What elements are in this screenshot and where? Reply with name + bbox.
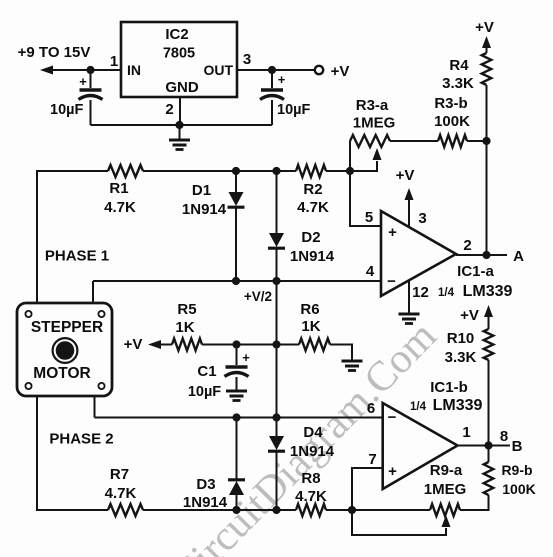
IC1-a label [457, 263, 494, 280]
capacitor input 10uF [79, 70, 103, 125]
junction R3a node [346, 167, 354, 175]
svg-text:+: + [388, 463, 397, 480]
svg-text:B: B [512, 438, 523, 455]
svg-text:2: 2 [463, 237, 471, 254]
svg-text:4.7K: 4.7K [104, 199, 136, 216]
junction D4 bottom [272, 506, 280, 514]
svg-text:2: 2 [165, 101, 173, 118]
svg-text:1N914: 1N914 [290, 443, 335, 460]
C1 value 10uF [188, 384, 221, 400]
node +V/2 label [244, 289, 272, 304]
resistor R1 [108, 165, 143, 177]
svg-text:8: 8 [500, 428, 508, 445]
motor screw bottom-left [25, 383, 31, 389]
diode D2 1N914 [268, 171, 285, 281]
wire pin7 branch [352, 468, 383, 510]
motor shaft [53, 338, 78, 363]
IC1-a minus input sign [387, 273, 396, 290]
IC2 pin OUT label [203, 62, 233, 78]
R7 value [105, 485, 137, 502]
regulator IC2 7805 box [121, 22, 237, 97]
svg-text:R10: R10 [447, 330, 475, 347]
wire R10 to output B [488, 360, 490, 446]
R10 label [447, 330, 475, 347]
svg-text:3: 3 [243, 51, 251, 68]
IC1-b label [430, 379, 468, 396]
svg-text:+: + [242, 350, 250, 365]
resistor R3-b [438, 135, 467, 147]
wire mid to R6 [277, 344, 300, 346]
svg-text:1: 1 [462, 424, 470, 441]
wire pin6 row [95, 417, 383, 419]
junction C1 top [232, 340, 240, 348]
svg-text:1K: 1K [301, 318, 320, 335]
node +V label [331, 63, 350, 80]
R1 label [109, 180, 128, 197]
node +V for R5 [124, 336, 143, 353]
svg-text:+: + [388, 224, 397, 241]
wire R3b to node [467, 140, 487, 142]
wire R3a to R3b [390, 140, 438, 142]
R3-b value [434, 113, 470, 130]
svg-text:A: A [513, 248, 524, 265]
svg-text:IN: IN [127, 62, 141, 78]
junction D2 bottom [272, 277, 280, 285]
D3 value 1N914 [183, 494, 228, 511]
R2 value [297, 199, 329, 216]
resistor R6 [299, 339, 330, 351]
supply input arrow [40, 66, 53, 75]
svg-text:3.3K: 3.3K [442, 75, 474, 92]
svg-text:R1: R1 [109, 180, 128, 197]
IC1-b fraction 1/4 [410, 401, 427, 413]
svg-text:+: + [278, 72, 286, 87]
svg-text:C1: C1 [197, 363, 216, 380]
IC1-a fraction 1/4 [438, 287, 455, 299]
wire IC2 OUT [237, 69, 315, 71]
C1 label [197, 363, 216, 380]
wire R1 to R2 [143, 170, 296, 172]
svg-text:PHASE 2: PHASE 2 [49, 431, 113, 448]
junction D2 top [272, 167, 280, 175]
motor screw bottom-right [98, 383, 104, 389]
svg-text:R7: R7 [110, 466, 129, 483]
wire R6 to ground [330, 345, 352, 362]
motor screw top-right [98, 311, 104, 317]
svg-text:+: + [79, 74, 87, 89]
svg-text:R9-b: R9-b [501, 462, 532, 478]
watermark CircuitDiagram.Com [163, 313, 445, 557]
svg-text:1MEG: 1MEG [353, 115, 396, 132]
resistor R2 [296, 165, 326, 177]
motor label STEPPER [31, 319, 103, 336]
resistor R10 [484, 329, 494, 360]
svg-text:+V: +V [331, 63, 350, 80]
junction output cap [268, 66, 276, 74]
svg-text:4.7K: 4.7K [297, 199, 329, 216]
node PHASE 2 label [49, 431, 113, 448]
resistor R5 [172, 339, 202, 351]
pin 1 label [462, 424, 470, 441]
svg-text:STEPPER: STEPPER [31, 319, 103, 336]
svg-text:1/4: 1/4 [438, 287, 455, 299]
svg-text:4: 4 [366, 263, 375, 280]
svg-text:R2: R2 [303, 181, 322, 198]
svg-text:MOTOR: MOTOR [33, 365, 90, 382]
R6 value [301, 318, 320, 335]
svg-text:+V: +V [396, 167, 415, 184]
D2 label [301, 229, 320, 246]
wire R2 to node [326, 170, 350, 172]
input cap value 10uF [50, 102, 83, 118]
R9-a value [424, 481, 467, 498]
wire IC2 GND pin [179, 97, 181, 125]
svg-text:12: 12 [412, 284, 429, 301]
R4 value [442, 75, 474, 92]
pin 5 label [365, 209, 373, 226]
junction input cap [86, 66, 94, 74]
node +V for pin3 [396, 167, 415, 184]
wire phase2 to pin6 [94, 396, 96, 418]
svg-text:4.7K: 4.7K [105, 485, 137, 502]
R8 value [295, 488, 327, 505]
svg-text:D1: D1 [192, 182, 211, 199]
op-amp IC1-b triangle [383, 403, 458, 489]
wire mid vertical [276, 281, 278, 418]
R3-a value [353, 115, 396, 132]
svg-text:R6: R6 [300, 301, 319, 318]
wire phase2 left riser [37, 396, 108, 510]
stepper motor box [17, 303, 112, 396]
wire pin5 branch [350, 171, 381, 226]
D1 value 1N914 [182, 201, 227, 218]
R10 supply arrow [484, 305, 493, 329]
svg-text:LM339: LM339 [433, 397, 483, 414]
svg-text:D4: D4 [303, 424, 323, 441]
node +9 TO 15V supply label [18, 44, 91, 61]
R5 supply arrow [148, 340, 172, 349]
D4 label [303, 424, 323, 441]
svg-text:D3: D3 [196, 476, 215, 493]
R7 label [110, 466, 129, 483]
svg-text:10µF: 10µF [188, 384, 221, 400]
wire R5 to C1 [202, 344, 237, 346]
ground G1 [169, 125, 190, 150]
ground G3 C1 [226, 391, 247, 401]
R4 label [449, 57, 469, 74]
R2 label [303, 181, 322, 198]
svg-text:6: 6 [367, 400, 375, 417]
svg-text:1MEG: 1MEG [424, 481, 467, 498]
pin 12 label [412, 284, 429, 301]
capacitor C1 10uF [225, 345, 249, 392]
svg-text:1N914: 1N914 [182, 201, 227, 218]
svg-text:4.7K: 4.7K [295, 488, 327, 505]
svg-text:IC1-a: IC1-a [457, 263, 494, 280]
junction mid node [272, 340, 280, 348]
D2 value 1N914 [290, 248, 335, 265]
wire ground bus below IC2 [91, 124, 273, 126]
svg-text:R4: R4 [449, 57, 469, 74]
wire C1 to mid node [237, 344, 277, 346]
svg-text:IC2: IC2 [165, 26, 188, 43]
pin 2 label [463, 237, 471, 254]
node PHASE 1 label [45, 248, 109, 265]
IC2 pin GND label [165, 79, 199, 96]
svg-text:+9 TO 15V: +9 TO 15V [18, 44, 91, 61]
wire pin4 row [93, 280, 381, 282]
R10 value [445, 349, 477, 366]
wire R7 to R8 [143, 509, 296, 511]
node B label [512, 438, 523, 455]
motor label MOTOR [33, 365, 90, 382]
ground G2 R6 [342, 361, 363, 371]
IC1-a value LM339 [463, 283, 513, 300]
output cap plus sign [278, 72, 286, 87]
svg-text:1/4: 1/4 [410, 401, 427, 413]
C1 plus sign [242, 350, 250, 365]
R6 label [300, 301, 319, 318]
junction D4 top [272, 413, 280, 421]
svg-text:+V: +V [460, 307, 479, 324]
node +V for R4 [475, 19, 494, 36]
pin 4 label [366, 263, 375, 280]
ground G4 IC1-a [399, 314, 420, 324]
svg-text:+V: +V [124, 336, 143, 353]
svg-text:OUT: OUT [203, 62, 233, 78]
IC1-b minus input sign [388, 409, 397, 426]
svg-text:100K: 100K [502, 481, 535, 497]
IC2 value 7805 [163, 46, 195, 62]
pin 3 label [418, 210, 426, 227]
resistor R8 [296, 504, 326, 516]
svg-text:1N914: 1N914 [290, 248, 335, 265]
R9-b value [502, 481, 535, 497]
R9-a label [430, 462, 463, 479]
diode D3 1N914 [228, 418, 245, 511]
pin 7 label [368, 451, 376, 468]
svg-text:+V/2: +V/2 [244, 289, 272, 304]
svg-text:R9-a: R9-a [430, 462, 463, 479]
wire output B [458, 445, 511, 447]
svg-text:1N914: 1N914 [183, 494, 228, 511]
svg-text:7: 7 [368, 451, 376, 468]
IC1-a pin3 supply arrow [405, 188, 414, 227]
svg-text:R3-b: R3-b [434, 95, 467, 112]
junction output B [484, 441, 492, 449]
IC2 pin IN label [127, 62, 141, 78]
R8 label [301, 470, 320, 487]
IC1-b plus input sign [388, 463, 397, 480]
motor screw top-left [25, 311, 31, 317]
svg-text:1K: 1K [175, 319, 194, 336]
svg-text:PHASE 1: PHASE 1 [45, 248, 109, 265]
node A label [513, 248, 524, 265]
junction output A [482, 251, 490, 259]
op-amp IC1-a triangle [381, 211, 456, 296]
junction D1 bottom [232, 277, 240, 285]
D4 value 1N914 [290, 443, 335, 460]
wire supply input to IC2 IN [51, 69, 121, 71]
output cap value 10uF [277, 102, 310, 118]
terminal +V output [315, 66, 323, 74]
resistor R7 [108, 504, 143, 516]
capacitor output 10uF [260, 70, 284, 125]
wire phase1 to pin4 [92, 281, 94, 303]
svg-text:−: − [387, 273, 396, 290]
svg-text:LM339: LM339 [463, 283, 513, 300]
wire node to R9a [352, 509, 430, 511]
D1 label [192, 182, 211, 199]
R5 label [177, 301, 196, 318]
svg-text:10µF: 10µF [50, 102, 83, 118]
diode D1 1N914 [228, 171, 245, 281]
resistor R9-b [484, 446, 494, 496]
svg-text:5: 5 [365, 209, 373, 226]
resistor R4 [482, 53, 492, 85]
svg-text:1: 1 [110, 53, 118, 70]
svg-text:10µF: 10µF [277, 102, 310, 118]
wire R3a wiper branch [350, 148, 382, 171]
junction D3 bottom [232, 506, 240, 514]
svg-text:7805: 7805 [163, 46, 195, 62]
svg-text:100K: 100K [434, 113, 470, 130]
svg-text:R3-a: R3-a [356, 97, 389, 114]
svg-text:IC1-b: IC1-b [430, 379, 468, 396]
wire R9a wiper loop [352, 510, 451, 535]
junction ground bus [175, 121, 183, 129]
svg-text:−: − [388, 409, 397, 426]
IC2 pin 3 label [243, 51, 251, 68]
wire R9a to R9b [460, 495, 489, 510]
IC1-b value LM339 [433, 397, 483, 414]
R3-a label [356, 97, 389, 114]
junction pin7 node [348, 506, 356, 514]
pin 6 label [367, 400, 375, 417]
wire R4 to output A [486, 85, 488, 251]
wire output A [456, 254, 507, 256]
junction D3 top [232, 413, 240, 421]
IC1-a plus input sign [388, 224, 397, 241]
R3-b label [434, 95, 467, 112]
potentiometer R3-a [350, 135, 390, 171]
svg-text:R8: R8 [301, 470, 320, 487]
junction D1 top [232, 167, 240, 175]
R4 supply arrow [482, 36, 491, 53]
IC2 pin 2 label [165, 101, 173, 118]
IC2 pin 1 label [110, 53, 118, 70]
node +V for R10 [460, 307, 479, 324]
wire pin12 to ground [408, 281, 410, 314]
R1 value [104, 199, 136, 216]
R5 value [175, 319, 194, 336]
D3 label [196, 476, 215, 493]
input cap plus sign [79, 74, 87, 89]
IC2 label [165, 26, 188, 43]
svg-text:3: 3 [418, 210, 426, 227]
svg-text:3.3K: 3.3K [445, 349, 477, 366]
svg-text:GND: GND [165, 79, 199, 96]
junction R4 bottom [482, 137, 490, 145]
svg-text:+V: +V [475, 19, 494, 36]
potentiometer R9-a [430, 504, 460, 516]
R9-b label [501, 462, 532, 478]
pin 8 label [500, 428, 508, 445]
svg-text:R5: R5 [177, 301, 196, 318]
wire phase1 left riser [37, 171, 108, 303]
diode D4 1N914 [268, 418, 285, 511]
svg-text:D2: D2 [301, 229, 320, 246]
wire R8 to node [326, 509, 352, 511]
